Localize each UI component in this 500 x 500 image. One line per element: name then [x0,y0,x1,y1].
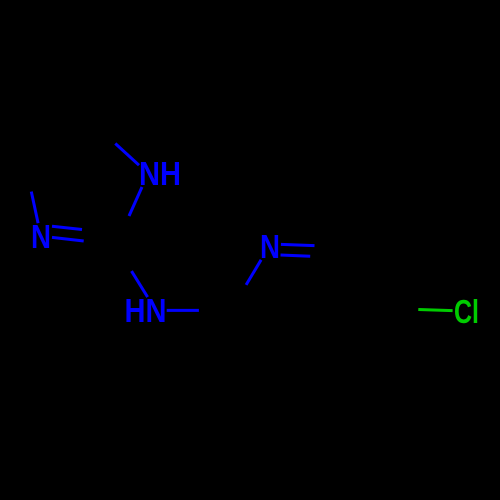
svg-text:N: N [31,218,51,255]
wire N1'=C6' double bond inner line [281,255,311,256]
wire C5'-Cl half bond [418,310,452,311]
wire C2-N(exo) half bond [132,271,148,297]
svg-text:NH: NH [139,155,181,192]
wire N(exo)-C2' half bond [167,309,199,312]
wire C5-N1 half bond [115,144,139,166]
svg-text:HN: HN [125,292,167,329]
svg-text:Cl: Cl [454,293,479,330]
wire N1-C2 half bond [129,187,142,216]
wire N3-C4 half bond [31,192,38,224]
wire C2=N3 double bond main line [52,237,84,241]
wire C2'-N1' half bond [246,260,261,285]
svg-text:N: N [260,228,280,265]
wire N1'=C6' double bond main line [281,244,315,245]
wire C2=N3 double bond inner line [52,226,82,229]
